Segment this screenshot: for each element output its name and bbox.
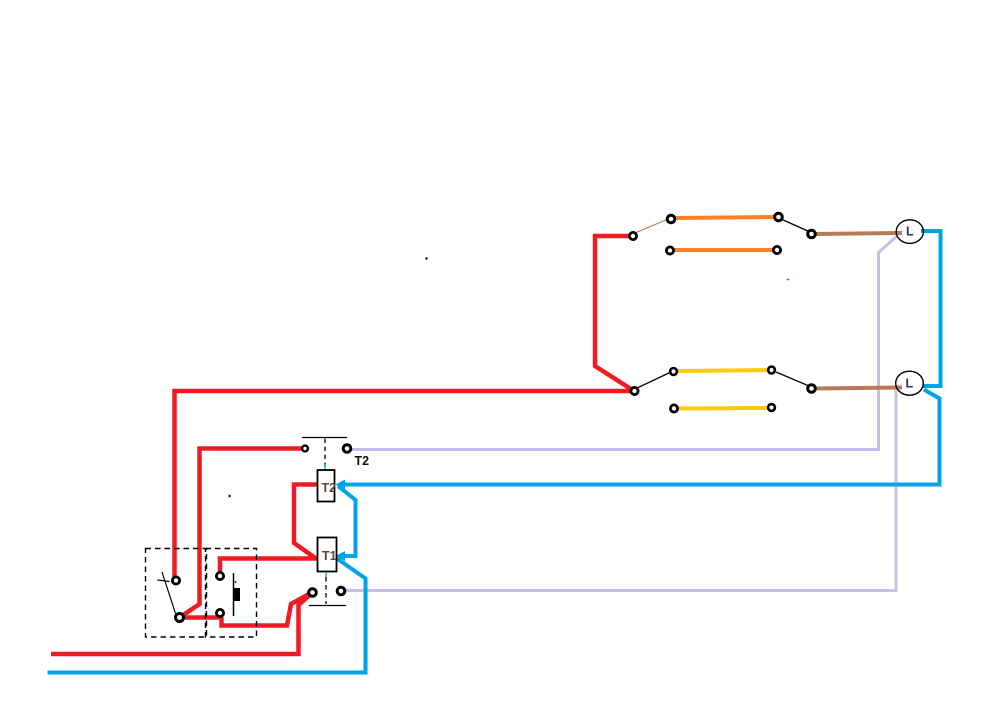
terminal: yellow row1 lamp side bbox=[808, 385, 816, 393]
wire brown: yellow bank to lamp L2 bbox=[814, 388, 902, 389]
terminal: relay coil top bbox=[216, 572, 223, 579]
terminal: manual switch top bbox=[172, 577, 179, 584]
relay coil dot bbox=[235, 581, 237, 583]
T1 switch dashed link bbox=[325, 577, 327, 604]
wire thin brown: switch lever orange bank bbox=[635, 219, 668, 233]
wire red: manual switch bottom to relay coil bottom terminal and onward to contact terminal bbox=[180, 593, 311, 626]
wire orange: switch bank row 1 bbox=[674, 217, 778, 218]
svg-text:L: L bbox=[906, 225, 914, 239]
stray dot black 2 bbox=[229, 495, 231, 498]
terminal: yellow row2 right bbox=[768, 404, 775, 411]
wire red: from relay-contact left terminal down to manual switch bottom terminal bbox=[181, 449, 305, 617]
terminal: relay coil bottom bbox=[216, 609, 223, 616]
wire red: bottom supply line to relay contact terminal bbox=[51, 594, 312, 655]
wire brown: orange bank to lamp L1 bbox=[814, 233, 902, 234]
terminal: T1 switch left bbox=[309, 589, 317, 597]
terminal: T2 switch left bbox=[302, 446, 308, 452]
terminal: yellow row1 wire right bbox=[768, 367, 775, 374]
wire red: lamp feed from relay contact up to orange switch bank bbox=[595, 236, 634, 391]
wire blue: from T1 down to bottom supply line bbox=[48, 559, 366, 673]
wire red: long horizontal from manual switch to yellow switch bank bbox=[175, 391, 635, 580]
stray dot black bbox=[425, 257, 427, 259]
timer box T2 bbox=[318, 470, 335, 502]
T2 switch contact bar bbox=[302, 437, 347, 439]
manual switch lever bbox=[162, 572, 176, 614]
blue dash above T2 box bbox=[324, 464, 326, 473]
wire thin black: switch lever yellow bank right bbox=[776, 372, 809, 386]
terminal: orange row1 wire left bbox=[667, 215, 675, 223]
wire lavender: from lamp L1 down and left to T2 switch terminal bbox=[349, 236, 897, 450]
wire yellow: switch bank row 1 bbox=[677, 370, 771, 371]
terminal: orange row1 left (red feed) bbox=[629, 232, 636, 239]
terminal: T2 switch right bbox=[343, 445, 351, 453]
lamp L1 bbox=[896, 220, 923, 244]
blue dash below T1 box bbox=[325, 572, 327, 577]
T1 switch contact bar bbox=[309, 605, 346, 607]
wire blue: branch from T2 down to timer T1 bbox=[338, 486, 356, 556]
wire thin black: switch lever orange bank right bbox=[781, 219, 810, 232]
wire red: timer T2 to junction at T1 bbox=[294, 485, 318, 559]
wire blue: lamp L2 down and long run left to timer T2 bbox=[342, 390, 940, 485]
terminal: orange row1 lamp side bbox=[808, 230, 816, 238]
T2 switch dashed link bbox=[324, 439, 326, 471]
svg-text:T1: T1 bbox=[322, 549, 337, 563]
lamp L2 bbox=[896, 371, 924, 395]
timer box T1 bbox=[318, 538, 337, 572]
terminal: orange row2 right bbox=[773, 246, 780, 253]
wire yellow: switch bank row 2 bbox=[677, 406, 770, 411]
stray dot red bbox=[787, 279, 790, 281]
terminal: orange row2 left bbox=[666, 247, 673, 254]
dashed enclosure: relay bbox=[206, 549, 257, 638]
wire blue: lamp L1 to lamp L2 bbox=[921, 231, 941, 386]
manual switch lever tick bbox=[158, 580, 170, 582]
terminal: T1 switch right bbox=[337, 587, 345, 595]
dashed enclosure: manual switch bbox=[146, 549, 207, 638]
terminal: yellow row2 left bbox=[670, 405, 677, 412]
blue arrowhead at T2 bbox=[336, 480, 346, 490]
terminal: yellow row1 left (red feed) bbox=[631, 387, 638, 394]
wire lavender: from lamp L2 brown junction down and left to T1 switch terminal bbox=[344, 388, 896, 591]
wire thin black: switch lever yellow bank left bbox=[637, 372, 671, 388]
wire orange: switch bank row 2 bbox=[674, 248, 776, 252]
svg-text:T2: T2 bbox=[355, 454, 370, 468]
relay coil core line bbox=[233, 573, 235, 616]
svg-text:T2: T2 bbox=[322, 481, 337, 495]
svg-text:L: L bbox=[906, 377, 914, 391]
wire red: relay coil top terminal to timer T1 bbox=[220, 559, 317, 577]
relay coil body bbox=[233, 588, 240, 601]
terminal: manual switch bottom bbox=[176, 614, 184, 622]
terminal: yellow row1 wire left bbox=[670, 368, 677, 375]
terminal: orange row1 wire right bbox=[775, 213, 783, 221]
blue arrowhead at T1 bbox=[336, 551, 346, 561]
